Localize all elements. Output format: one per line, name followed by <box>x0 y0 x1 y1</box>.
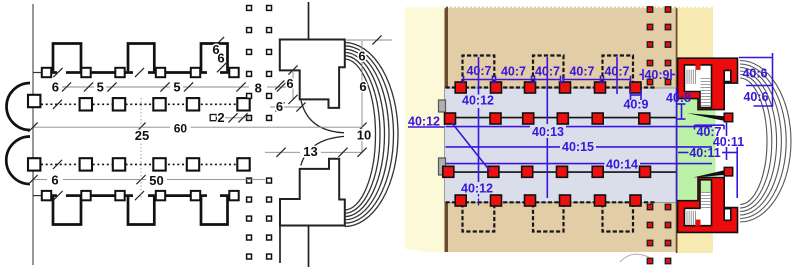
atrium colonnade dots <box>247 6 252 11</box>
right wall dashed lines <box>446 86 656 88</box>
svg-text:10: 10 <box>357 128 371 143</box>
purple chapel centre verticals <box>478 57 480 95</box>
svg-text:40:7: 40:7 <box>535 64 560 78</box>
svg-text:6: 6 <box>276 99 283 114</box>
right panel: blue nave area <box>445 88 677 203</box>
svg-text:40:7: 40:7 <box>569 64 594 78</box>
svg-text:40:15: 40:15 <box>562 140 594 154</box>
40:11 lines <box>678 152 689 154</box>
upper chapel 1 <box>53 44 81 72</box>
svg-text:25: 25 <box>135 128 149 143</box>
right panel: green porch area <box>678 88 716 201</box>
40:6 bracket <box>772 53 774 107</box>
lower gate outline <box>280 159 345 226</box>
lower red gate structure <box>678 192 738 232</box>
red piers lower wall <box>455 195 466 206</box>
40:7 lower bracket <box>695 124 725 126</box>
left apse upper semicircle <box>6 83 30 130</box>
dim 6 vertical near gate <box>292 70 294 99</box>
red piers upper wall <box>455 82 466 93</box>
torn paper bottom edge <box>378 249 745 269</box>
svg-text:40:12: 40:12 <box>461 181 493 195</box>
upper apse quarter arc <box>301 101 344 133</box>
lower chapel 1 <box>53 197 81 225</box>
svg-text:8: 8 <box>255 81 262 96</box>
left facade wall line <box>32 4 34 265</box>
upper red gate structure <box>678 58 738 109</box>
upper door diagonal <box>688 113 726 121</box>
right lower chapel 1 dashed <box>463 203 495 231</box>
lower nave colonnade dotted line <box>41 163 238 165</box>
right lower chapel 2 dashed <box>533 203 564 231</box>
svg-text:40:9: 40:9 <box>623 97 648 111</box>
upper chapel 2 <box>128 44 154 72</box>
svg-text:60: 60 <box>174 121 188 135</box>
gray wall piers right panel <box>439 100 446 112</box>
upper corner red pier <box>724 113 733 122</box>
svg-text:40:7: 40:7 <box>604 64 629 78</box>
right panel: right yellow strip <box>677 5 714 253</box>
svg-text:5: 5 <box>97 79 104 94</box>
upper gate outline <box>280 40 345 108</box>
right panel: parchment yellow strip <box>405 6 445 252</box>
red atrium dots <box>647 7 652 12</box>
40:12 left leader <box>408 126 445 128</box>
right panel: brown wall line <box>445 5 449 252</box>
svg-text:6: 6 <box>286 76 293 91</box>
lower aisle wall <box>33 195 42 197</box>
lower corner red pier <box>724 167 733 176</box>
svg-text:50: 50 <box>149 173 163 188</box>
svg-text:40:6: 40:6 <box>742 66 767 80</box>
lower nave colonnade piers <box>28 158 40 170</box>
svg-text:6: 6 <box>359 79 366 94</box>
svg-text:40:9: 40:9 <box>644 68 669 82</box>
svg-text:6: 6 <box>51 173 58 188</box>
upper nave colonnade dotted line <box>41 103 238 105</box>
parchment pinked top edge <box>405 0 713 9</box>
40:9 right ticks <box>640 74 644 76</box>
svg-text:6: 6 <box>217 50 224 65</box>
svg-text:40:6: 40:6 <box>743 90 768 104</box>
dim line 60 <box>33 126 170 128</box>
svg-text:5: 5 <box>173 79 180 94</box>
left apse lower semicircle <box>6 137 30 185</box>
□2 dim <box>225 117 250 119</box>
right colonnade lines <box>445 117 677 119</box>
upper aisle wall <box>33 72 42 74</box>
right upper chapel 1 dashed <box>463 56 495 84</box>
purple line 40:15 <box>446 146 561 148</box>
dim line 13 <box>265 151 300 153</box>
extension line x362 <box>361 41 363 152</box>
right lower chapel 3 dashed <box>603 203 634 231</box>
svg-text:40:13: 40:13 <box>532 125 564 139</box>
purple line 40:13 <box>446 126 531 128</box>
svg-text:6: 6 <box>52 79 59 94</box>
extension line x141 <box>140 98 142 200</box>
upper nave colonnade piers <box>28 95 40 107</box>
red piers upper colonnade <box>445 113 456 124</box>
right panel apse arc fan <box>740 61 791 223</box>
svg-text:6: 6 <box>358 49 365 64</box>
red piers lower colonnade <box>443 166 454 177</box>
svg-text:40:14: 40:14 <box>606 158 638 172</box>
green boundary purple line <box>676 88 678 203</box>
gate stub walls bottom <box>308 226 310 268</box>
right panel: tan ground <box>446 6 677 252</box>
upper chapel 3 <box>201 44 228 72</box>
svg-text:40:7: 40:7 <box>501 64 526 78</box>
lower door diagonal <box>693 170 724 177</box>
lower chapel 2 <box>128 197 154 225</box>
dim 6 horizontal near gate <box>270 106 302 108</box>
chapel3 ticks <box>215 37 224 46</box>
atrium wall dark line <box>676 6 678 253</box>
svg-text:2: 2 <box>217 110 224 125</box>
svg-text:40:12: 40:12 <box>408 115 440 129</box>
left panel apse arc fan <box>345 43 398 227</box>
top right dim line <box>345 39 392 41</box>
gate stub wall top <box>308 2 310 40</box>
40:9 bracket <box>631 94 642 96</box>
dim line 6-5-5-8 <box>62 86 94 88</box>
right upper chapel 3 dashed <box>603 56 634 84</box>
svg-text:40:12: 40:12 <box>462 93 494 107</box>
svg-text:40:7: 40:7 <box>466 64 491 78</box>
lower chapel 3 <box>201 197 228 225</box>
svg-text:40:11: 40:11 <box>689 146 720 160</box>
purple chapel width brackets <box>464 79 493 81</box>
dim line 50 <box>33 179 47 181</box>
right upper chapel 2 dashed <box>533 56 564 84</box>
lower apse quarter arc <box>301 136 344 165</box>
40:8 vertical <box>681 104 683 119</box>
purple line 40:14 <box>446 163 605 165</box>
svg-text:13: 13 <box>303 144 317 159</box>
svg-text:40:8: 40:8 <box>666 91 691 105</box>
